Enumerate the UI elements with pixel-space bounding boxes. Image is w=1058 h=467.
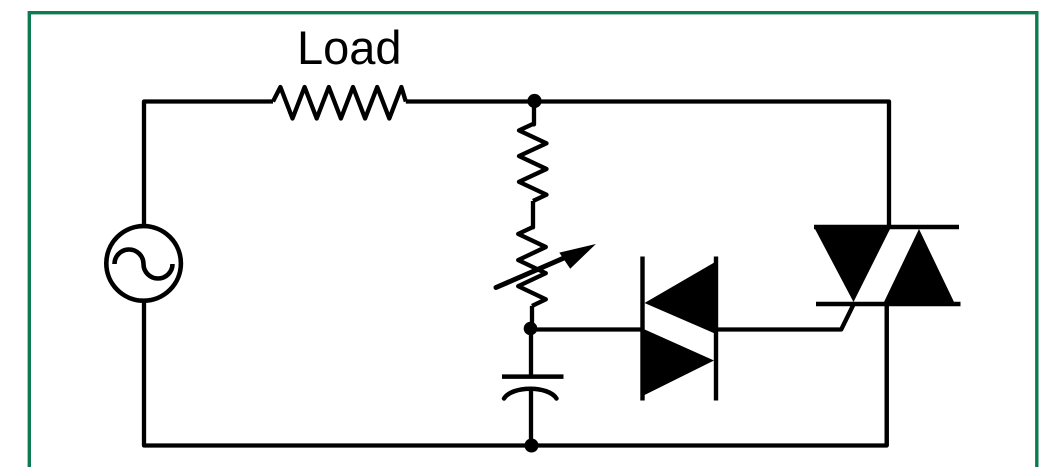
svg-text:Load: Load xyxy=(297,21,402,74)
